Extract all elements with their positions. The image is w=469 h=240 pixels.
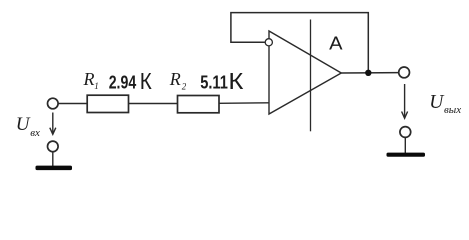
svg-text:5.11: 5.11 xyxy=(200,73,228,93)
svg-text:U: U xyxy=(429,92,445,113)
op-amp power rail line xyxy=(310,20,312,132)
label U vyx xyxy=(429,92,461,116)
value label 2.94 K xyxy=(109,68,153,94)
wire R2 to op-amp input xyxy=(219,102,269,105)
op-amp label A xyxy=(329,33,343,54)
svg-text:2: 2 xyxy=(182,82,187,92)
svg-text:К: К xyxy=(228,68,244,94)
inverting input bubble xyxy=(265,39,272,46)
output terminal circle (right) xyxy=(399,67,410,78)
svg-text:U: U xyxy=(16,114,31,135)
label R2 xyxy=(169,69,187,92)
label R1 xyxy=(83,69,99,91)
svg-text:1: 1 xyxy=(94,81,99,91)
wire lower terminal to right ground xyxy=(404,138,406,154)
svg-text:R: R xyxy=(169,69,181,89)
ground (left) xyxy=(36,166,73,171)
ground (right) xyxy=(387,153,426,157)
svg-text:К: К xyxy=(140,68,153,94)
value label 5.11 K xyxy=(200,68,244,94)
svg-text:вых: вых xyxy=(444,104,461,116)
svg-text:2.94: 2.94 xyxy=(109,73,137,93)
output node junction dot xyxy=(365,70,371,76)
input terminal circle (left) xyxy=(48,98,59,109)
svg-text:R: R xyxy=(83,69,95,89)
svg-text:A: A xyxy=(329,33,343,54)
output wire op-amp to output terminal xyxy=(341,72,398,74)
op-amp U1 triangle xyxy=(269,31,341,114)
feedback wire from output node to inverting input xyxy=(231,13,368,72)
wire R1 to R2 xyxy=(129,103,178,105)
output lower terminal circle xyxy=(400,127,411,138)
wire input terminal to R1 xyxy=(58,103,87,105)
svg-text:вх: вх xyxy=(30,127,40,139)
wire lower terminal to left ground xyxy=(52,152,54,166)
resistor R2 xyxy=(178,96,220,113)
input arrow down xyxy=(50,113,56,135)
resistor R1 xyxy=(87,95,128,112)
label U vx xyxy=(16,114,40,139)
input lower terminal circle xyxy=(48,141,59,152)
output arrow down xyxy=(402,84,408,118)
